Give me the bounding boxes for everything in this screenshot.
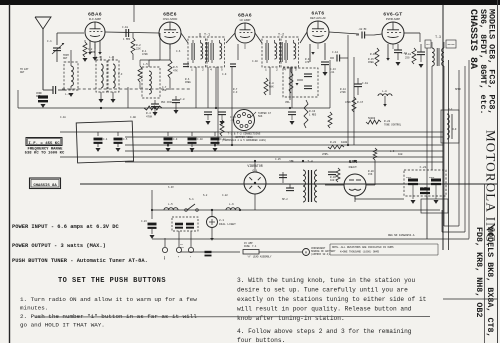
svg-text:FUSE: FUSE <box>244 245 250 248</box>
svg-text:R-F AMP: R-F AMP <box>89 17 101 21</box>
svg-text:OSC-MOD: OSC-MOD <box>163 17 178 21</box>
svg-text:MODELS BK8, BX8A, CT8,: MODELS BK8, BX8A, CT8, <box>485 227 495 338</box>
svg-text:exactly on the stations tuning: exactly on the stations tuning to either… <box>237 296 427 303</box>
svg-text:L-8: L-8 <box>382 90 387 93</box>
svg-text:350: 350 <box>162 89 167 92</box>
svg-text:R-17: R-17 <box>357 101 364 104</box>
svg-text:.5MF: .5MF <box>288 160 294 163</box>
svg-text:C-5: C-5 <box>123 138 128 141</box>
svg-text:470K: 470K <box>146 116 153 119</box>
svg-text:C-22: C-22 <box>222 194 228 197</box>
svg-text:T-2: T-2 <box>278 34 284 38</box>
svg-text:C-6: C-6 <box>176 50 181 53</box>
svg-text:.05MF: .05MF <box>88 51 96 54</box>
svg-text:1. Turn radio ON and allow it: 1. Turn radio ON and allow it to warm up… <box>20 296 197 303</box>
svg-text:47K: 47K <box>305 61 310 64</box>
svg-text:ANT: ANT <box>63 57 68 60</box>
svg-text:C-10: C-10 <box>197 138 203 141</box>
svg-text:470K: 470K <box>142 53 148 56</box>
svg-text:1MEG: 1MEG <box>368 61 374 64</box>
svg-text:270K: 270K <box>340 91 346 94</box>
svg-text:DWG NO 10SW8954-A: DWG NO 10SW8954-A <box>388 234 415 237</box>
svg-text:go and HOLD IT THAT WAY.: go and HOLD IT THAT WAY. <box>20 322 105 329</box>
svg-text:.02 MF: .02 MF <box>358 28 367 31</box>
svg-text:C-25: C-25 <box>275 158 281 161</box>
svg-text:POWER INPUT - 6.6 amps at 6.3V: POWER INPUT - 6.6 amps at 6.3V DC <box>12 224 120 230</box>
svg-text:C-18: C-18 <box>362 82 369 85</box>
svg-text:C-3: C-3 <box>118 73 123 76</box>
svg-text:C-12: C-12 <box>332 51 339 54</box>
svg-text:ANT: ANT <box>20 71 25 74</box>
svg-text:ANT: ANT <box>36 95 41 98</box>
svg-text:I.F. = 455 KC: I.F. = 455 KC <box>28 142 60 146</box>
svg-text:6.3V: 6.3V <box>168 186 174 189</box>
svg-text:50000: 50000 <box>368 117 376 120</box>
svg-text:will result in poor quality.: will result in poor quality. Release but… <box>237 306 412 313</box>
svg-text:GRN-BRN: GRN-BRN <box>447 44 454 46</box>
svg-text:K=ONE THOUSAND (1000) OHMS: K=ONE THOUSAND (1000) OHMS <box>340 251 380 254</box>
svg-text:I-F AMP: I-F AMP <box>240 18 251 22</box>
svg-text:538 KC TO 1600 KC: 538 KC TO 1600 KC <box>25 152 65 156</box>
svg-text:30MF: 30MF <box>429 176 435 179</box>
svg-text:PUSH BUTTON TUNER - Automatic: PUSH BUTTON TUNER - Automatic Tuner AT-8… <box>12 258 148 264</box>
svg-text:CHASSIS 8A: CHASSIS 8A <box>33 184 57 188</box>
svg-text:1: 1 <box>191 68 193 71</box>
svg-text:C-19: C-19 <box>401 52 408 55</box>
svg-text:4. Follow above steps 2 and 3: 4. Follow above steps 2 and 3 for the re… <box>237 328 412 335</box>
svg-text:6AT6: 6AT6 <box>312 11 325 17</box>
svg-text:3.3: 3.3 <box>233 91 238 94</box>
svg-text:1 MEG: 1 MEG <box>309 114 317 117</box>
svg-text:40MF: 40MF <box>406 176 412 179</box>
svg-text:A: A <box>305 251 307 255</box>
svg-text:DET-AVC-AF: DET-AVC-AF <box>310 16 326 20</box>
svg-text:C-1A: C-1A <box>60 116 66 119</box>
svg-text:.05: .05 <box>230 119 235 122</box>
svg-text:2: 2 <box>202 68 204 71</box>
svg-text:C-21: C-21 <box>420 166 427 169</box>
svg-text:L-4: L-4 <box>109 56 114 59</box>
svg-text:TO SET THE PUSH BUTTONS: TO SET THE PUSH BUTTONS <box>58 277 166 285</box>
svg-text:S-2: S-2 <box>203 194 208 197</box>
svg-text:FD8, KR8, NH8, OB2: FD8, KR8, NH8, OB2 <box>474 227 484 317</box>
svg-text:5: 5 <box>221 68 223 71</box>
svg-text:NOTE--ALL RESISTORS ARE INDICA: NOTE--ALL RESISTORS ARE INDICATED IN OHM… <box>332 246 394 249</box>
svg-text:22K: 22K <box>136 48 141 51</box>
svg-text:C-9: C-9 <box>173 138 178 141</box>
svg-text:L-6: L-6 <box>229 203 234 206</box>
svg-text:2-1: 2-1 <box>219 219 224 222</box>
svg-text:2: 2 <box>276 68 278 71</box>
svg-text:C-9: C-9 <box>222 73 227 76</box>
svg-text:68K: 68K <box>269 86 274 89</box>
svg-text:T-4: T-4 <box>307 160 313 163</box>
svg-text:C-8: C-8 <box>180 98 185 101</box>
svg-text:C-18: C-18 <box>122 26 129 29</box>
svg-text:PWR AMP: PWR AMP <box>386 17 400 21</box>
svg-text:250: 250 <box>405 57 410 60</box>
svg-text:DIAL LIGHT: DIAL LIGHT <box>219 223 236 226</box>
svg-text:470K: 470K <box>345 101 351 104</box>
svg-text:T-3: T-3 <box>435 35 441 39</box>
svg-text:BLU: BLU <box>426 44 429 46</box>
svg-text:3. With the tuning knob, tune: 3. With the tuning knob, tune in the sta… <box>237 277 416 284</box>
svg-text:C-11: C-11 <box>220 138 226 141</box>
svg-text:C-4: C-4 <box>103 138 108 141</box>
svg-text:C-10: C-10 <box>252 60 258 63</box>
svg-text:C-23: C-23 <box>141 220 147 223</box>
svg-text:TONE CONTROL: TONE CONTROL <box>384 124 402 127</box>
svg-text:47K: 47K <box>173 70 178 73</box>
svg-text:knob after tuning-in station.: knob after tuning-in station. <box>237 315 345 322</box>
svg-text:100: 100 <box>330 179 335 182</box>
svg-text:C-1: C-1 <box>47 40 52 43</box>
svg-text:5: 5 <box>295 68 297 71</box>
svg-text:L-3: L-3 <box>96 56 101 59</box>
svg-text:4: 4 <box>284 68 286 71</box>
svg-text:V-C: V-C <box>448 108 453 111</box>
svg-text:1MEG: 1MEG <box>185 81 191 84</box>
svg-text:R-21: R-21 <box>330 141 337 144</box>
svg-text:CHASSIS 8A: CHASSIS 8A <box>467 9 478 69</box>
svg-text:1 MMF: 1 MMF <box>123 38 131 41</box>
svg-text:50K: 50K <box>258 115 263 118</box>
svg-text:SPKR: SPKR <box>455 88 461 91</box>
svg-text:.01: .01 <box>330 71 335 74</box>
svg-text:1: 1 <box>265 68 267 71</box>
svg-text:L-5: L-5 <box>143 63 148 66</box>
svg-text:7-1: 7-1 <box>252 245 257 248</box>
svg-text:C-1B: C-1B <box>130 116 136 119</box>
svg-text:RECT.: RECT. <box>349 165 358 169</box>
svg-text:four buttons.: four buttons. <box>237 337 285 343</box>
svg-text:minutes.: minutes. <box>20 305 48 312</box>
svg-text:GRD: GRD <box>163 256 166 261</box>
svg-text:(APPROX 30 A): (APPROX 30 A) <box>311 253 330 256</box>
svg-text:BAT: BAT <box>180 246 185 249</box>
svg-text:20 MF: 20 MF <box>420 186 427 189</box>
svg-text:HTRS.: HTRS. <box>322 153 329 156</box>
svg-text:L-5: L-5 <box>168 203 173 206</box>
svg-text:1000: 1000 <box>341 141 348 144</box>
svg-text:(TERMINALS 2 & 5 GROUNDED LUGS: (TERMINALS 2 & 5 GROUNDED LUGS) <box>222 139 267 142</box>
svg-text:T-1: T-1 <box>204 34 210 38</box>
svg-text:R-16: R-16 <box>370 53 377 56</box>
svg-text:L-9: L-9 <box>390 150 395 153</box>
svg-text:FLD: FLD <box>452 128 457 131</box>
svg-text:desire to set up. Tune carefu: desire to set up. Tune carefully until y… <box>237 287 408 294</box>
svg-text:10H: 10H <box>398 153 403 156</box>
svg-text:VOL: VOL <box>285 101 290 104</box>
svg-text:S-1: S-1 <box>189 198 194 201</box>
svg-text:SR6, 8FDT, 8GMT, etc.: SR6, 8FDT, 8GMT, etc. <box>478 9 488 115</box>
svg-text:4: 4 <box>210 68 212 71</box>
svg-text:OSC COIL: OSC COIL <box>161 101 173 104</box>
svg-text:‘A’ LEAD ASSEMBLY: ‘A’ LEAD ASSEMBLY <box>247 256 272 259</box>
svg-text:SP-2: SP-2 <box>282 198 288 201</box>
svg-text:15K: 15K <box>368 173 373 176</box>
svg-text:POWER OUTPUT - 3 watts (MAX.): POWER OUTPUT - 3 watts (MAX.) <box>12 243 106 249</box>
